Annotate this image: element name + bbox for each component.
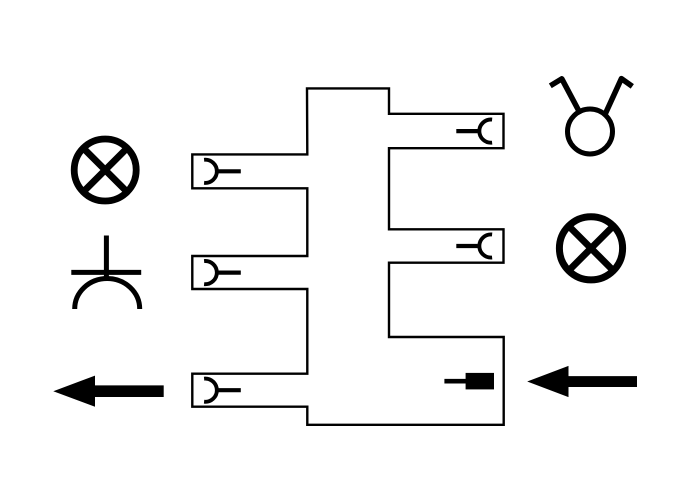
lamp E1 (left, circle with X) — [74, 139, 136, 201]
socket contact 1 (left cavity 1) — [204, 160, 241, 183]
connector housing X1 (junction block outline) — [192, 88, 503, 424]
socket contact 3 (left cavity 3) — [204, 379, 241, 402]
socket contact 2 (left cavity 2) — [204, 261, 241, 284]
socket contact 4 (right cavity 1) — [456, 120, 492, 143]
blade terminal (filled plug, bottom right cavity) — [444, 373, 494, 390]
horn H1 (top right, circle with bent terminals) — [550, 79, 632, 154]
lamp E2 (right, circle with X) — [559, 217, 622, 280]
arrow (feed wire, bottom right, pointing left) — [527, 366, 637, 397]
arrow (feed wire, bottom left, pointing left) — [53, 376, 163, 407]
ground symbol (chassis earth) — [71, 236, 141, 310]
socket contact 5 (right cavity 2) — [456, 234, 492, 257]
